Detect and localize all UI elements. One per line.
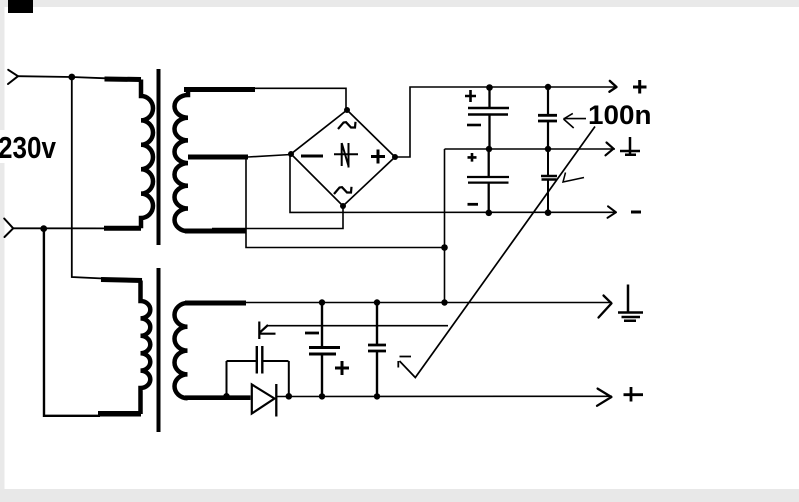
capacitor C3 minus label	[468, 203, 479, 206]
pointer arrowhead lower	[398, 357, 411, 368]
capacitor C4 plates	[541, 176, 557, 180]
bridge center diode glyph	[334, 143, 358, 168]
capacitor C6 top lead	[321, 303, 323, 348]
wire node A down to T2 primary top	[72, 77, 103, 279]
wire bridge left to -rail row3	[290, 154, 616, 212]
capacitor C3 bottom lead	[488, 183, 490, 213]
capacitor C6 bottom lead	[321, 354, 323, 396]
mid rail row2	[445, 148, 616, 150]
bridge AC tilde bottom	[334, 187, 352, 194]
wire C5 left down	[226, 361, 228, 397]
capacitor C5 left wire	[227, 360, 257, 362]
wire thick into T2 primary bottom	[98, 411, 141, 417]
capacitor C6 plus label	[335, 361, 349, 375]
transformer T1 primary winding	[141, 80, 153, 229]
node dot row1 colA	[486, 84, 493, 91]
node dot row4 x377	[374, 299, 380, 305]
capacitor C1 top lead	[488, 87, 490, 108]
T1 secondary bottom terminal wire	[185, 229, 246, 234]
node dot row4 x322	[319, 299, 325, 305]
pointer arrow to C2	[564, 113, 587, 128]
bridge rectifier diamond	[291, 110, 395, 206]
capacitor C2 plates	[538, 115, 557, 121]
node junction dot center-tap/midrail	[441, 244, 448, 251]
lower rail row4	[245, 302, 612, 304]
top gray strip	[0, 0, 799, 7]
capacitor C6 minus label	[305, 332, 319, 335]
capacitor C2 top lead	[547, 87, 549, 114]
T2 secondary top terminal wire	[185, 301, 246, 306]
node dot row3 colB	[545, 209, 552, 216]
T1 secondary center tap wire	[188, 155, 248, 160]
left gray strip	[0, 7, 5, 489]
output plus label row1	[633, 80, 647, 94]
capacitor C1 bottom lead	[488, 115, 490, 150]
transformer T2 core	[157, 268, 161, 432]
output arrow row4	[599, 296, 612, 318]
output arrow row3	[608, 206, 617, 218]
transformer T2 secondary winding	[175, 303, 188, 398]
T1 secondary top terminal wire	[184, 87, 255, 92]
node dot row1 colB	[545, 84, 551, 90]
wire T1 sec bottom to bridge bottom	[212, 206, 343, 229]
wire C5 right down	[288, 361, 290, 397]
node dot row2 colB	[545, 146, 551, 152]
node dot row5 x377	[374, 393, 380, 399]
wire thick into T2 primary top	[101, 280, 142, 281]
wire thick from primary T1 bottom	[104, 226, 141, 231]
node A junction dot	[68, 74, 75, 81]
pointer arrow to C4	[563, 173, 584, 183]
capacitor C7 top lead	[376, 303, 378, 346]
capacitor C1 plates	[468, 108, 509, 115]
bridge AC tilde top	[338, 122, 356, 129]
output arrow row5	[597, 389, 611, 406]
capacitor C3 top lead	[488, 149, 490, 177]
annotation arrow to C6 shaft	[267, 325, 448, 327]
node B junction dot	[40, 225, 47, 232]
output arrow row2	[606, 143, 614, 156]
transformer T1 secondary winding	[175, 91, 189, 231]
bridge plus sign	[371, 150, 385, 164]
bottom gray band	[0, 489, 799, 502]
capacitor C2 bottom lead	[547, 122, 549, 149]
capacitor C4 top lead	[547, 149, 549, 176]
wire to input arrow AC2	[13, 227, 106, 229]
capacitor C3 plates	[467, 177, 509, 183]
node dot row5 x322	[319, 393, 325, 399]
ground symbol row4	[618, 285, 643, 321]
annotation arrow to C6 head	[259, 322, 276, 340]
diode D1 triangle	[252, 385, 275, 414]
wire node B down to T2 primary bottom	[44, 229, 100, 416]
wire bridge right to +rail row1	[395, 87, 616, 157]
T2 secondary bottom terminal wire	[185, 395, 251, 400]
node dot diode left	[223, 393, 230, 400]
wire center tap to bridge left	[248, 155, 291, 158]
capacitor C6 plates	[309, 348, 340, 355]
capacitor C5 plates	[257, 346, 263, 374]
svg-text:100n: 100n	[588, 100, 652, 130]
wire mid rail down to lower rail	[444, 149, 446, 303]
node dot diode right	[286, 393, 293, 400]
output plus label row5	[624, 387, 644, 402]
output minus label row3	[631, 211, 641, 214]
white backdrop for 230v	[0, 130, 62, 163]
capacitor C5 right wire	[263, 360, 289, 362]
capacitor C3 plus label	[468, 153, 477, 162]
wire AC1 to junction A	[18, 76, 106, 78]
diode D1 cathode bar	[275, 384, 277, 417]
wire T1 sec top to bridge top	[255, 88, 346, 110]
bridge minus sign	[301, 155, 323, 158]
svg-text:230v: 230v	[0, 131, 56, 165]
wire thick to primary T1	[105, 77, 142, 83]
black box top-left (transparent residue)	[8, 0, 33, 13]
lower rail row5	[277, 395, 612, 397]
output arrow row1	[609, 81, 616, 92]
ground symbol row2	[620, 137, 640, 156]
input arrow AC2	[4, 219, 13, 238]
node dot row4 x444	[441, 299, 447, 305]
bridge bottom corner dot	[340, 203, 346, 209]
bridge left corner dot	[288, 151, 294, 157]
transformer T2 primary winding	[141, 281, 151, 415]
bridge right corner dot	[392, 154, 398, 160]
input arrow AC1	[8, 70, 18, 84]
bridge top corner dot	[344, 107, 350, 113]
transformer T1 core	[157, 69, 161, 245]
node dot row3 colA	[486, 210, 493, 217]
wire center tap down	[246, 157, 445, 248]
capacitor C1 plus label	[465, 90, 476, 102]
capacitor C1 minus label	[467, 124, 481, 127]
capacitor C7 plates	[368, 345, 386, 351]
pointer line 100n to lower caps	[400, 127, 596, 378]
capacitor C7 bottom lead	[376, 351, 378, 396]
capacitor C4 bottom lead	[547, 180, 549, 213]
node dot row2 colA	[486, 146, 492, 152]
